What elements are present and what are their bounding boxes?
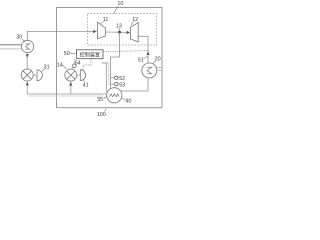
wave inside 40 <box>109 94 119 97</box>
leader 52 <box>118 77 119 79</box>
leader 41 <box>83 80 84 82</box>
dashed box 10 (turbo unit) <box>88 14 157 46</box>
turbine 12 <box>131 23 139 42</box>
stub sensor 53 <box>111 83 115 85</box>
sensor 52 <box>115 76 118 79</box>
svg-text:55: 55 <box>97 97 103 103</box>
wire: turbine 12 outlet elbow down to stack 20 <box>138 36 148 63</box>
valve 14 X <box>67 71 75 79</box>
wire: valve to vent 31 <box>33 74 37 76</box>
wire: stack 20 bottom to heat exchanger 40 <box>121 78 148 91</box>
vent 41 (D shape) <box>80 70 85 81</box>
arrow into compressor 11 <box>93 30 97 33</box>
svg-text:50: 50 <box>64 51 70 57</box>
stub sensor 52 <box>111 77 115 79</box>
wire: return rail up into left valve <box>26 81 28 94</box>
stub: stack 20 to boundary upper <box>156 66 162 68</box>
stack 20 circle <box>142 63 157 78</box>
wire: valve 14 to vent 41 <box>77 74 81 76</box>
system boundary 100 <box>57 8 163 108</box>
svg-text:40: 40 <box>125 99 131 105</box>
leader 31 <box>42 69 45 71</box>
leader 100 <box>105 108 107 112</box>
sensor 54 <box>73 64 77 68</box>
valve X <box>23 71 31 79</box>
compressor 11 <box>98 22 106 38</box>
vent 31 (D shape) <box>37 70 42 81</box>
return rail lower shadow line <box>29 95 104 97</box>
wire: HX 40 left pipe up to vent 41 <box>102 63 107 93</box>
wire: rail up into valve 14 <box>70 82 72 95</box>
svg-text:54: 54 <box>75 61 81 67</box>
svg-text:13: 13 <box>116 24 122 30</box>
svg-text:51: 51 <box>138 57 144 63</box>
sensor 53 <box>115 83 118 86</box>
controller box 50 <box>77 50 104 59</box>
squiggle inside 30 <box>25 44 29 49</box>
leader 14 <box>62 65 67 69</box>
leader 40 <box>122 98 126 100</box>
leader 50 <box>70 53 76 54</box>
node 13 junction dot <box>118 31 121 34</box>
leader 53 <box>118 83 119 85</box>
dashed control drop to sensors <box>102 63 109 86</box>
svg-text:30: 30 <box>16 35 22 41</box>
valve (left exhaust) <box>21 69 33 81</box>
svg-text:52: 52 <box>119 76 125 82</box>
heat exchanger 40 circle <box>107 88 122 103</box>
svg-text:31: 31 <box>44 65 50 71</box>
stub: stack 20 to boundary lower <box>157 69 162 71</box>
link sensor 54 to valve 14 <box>71 67 73 69</box>
arrow up into left valve <box>26 82 29 86</box>
arrow into turbine 12 <box>127 31 131 34</box>
squiggle inside 20 <box>147 67 152 74</box>
leader 51 <box>143 56 147 58</box>
leader 20 <box>153 61 155 64</box>
intake pipe lower line <box>0 48 22 50</box>
svg-text:20: 20 <box>155 56 161 62</box>
leader 12 <box>131 22 134 26</box>
valve 14 <box>65 69 77 81</box>
leader 11 <box>100 22 104 25</box>
wire: junction 13 down-elbow toward heat exchanger 40 <box>111 32 120 89</box>
arrow up into valve 14 <box>69 82 72 86</box>
dashed drop box50 to sensor 54 <box>73 59 75 64</box>
wire: intake line into compressor 11 <box>27 32 94 41</box>
wire: 30 down to left valve <box>26 53 28 69</box>
svg-text:100: 100 <box>97 112 106 118</box>
blower 30 circle <box>21 40 33 52</box>
return rail wire <box>27 93 107 95</box>
dashed control elbow box50 to vent 41 <box>83 59 91 70</box>
wire: compressor 11 outlet to turbine 12 <box>106 31 130 33</box>
leader 30 <box>22 39 25 42</box>
svg-text:53: 53 <box>119 82 125 88</box>
leader 55 <box>103 97 106 99</box>
dashed control line box50 to stack feed <box>103 51 148 52</box>
leader 10 <box>114 6 118 13</box>
arrow down from 30 <box>26 54 29 58</box>
svg-text:控制装置: 控制装置 <box>80 51 100 58</box>
svg-text:11: 11 <box>103 17 109 23</box>
intake pipe upper line <box>0 44 21 46</box>
svg-text:14: 14 <box>57 62 63 68</box>
svg-text:41: 41 <box>83 83 89 89</box>
leader 13 <box>118 28 120 30</box>
arrow up toward turbine 12 <box>146 51 149 55</box>
